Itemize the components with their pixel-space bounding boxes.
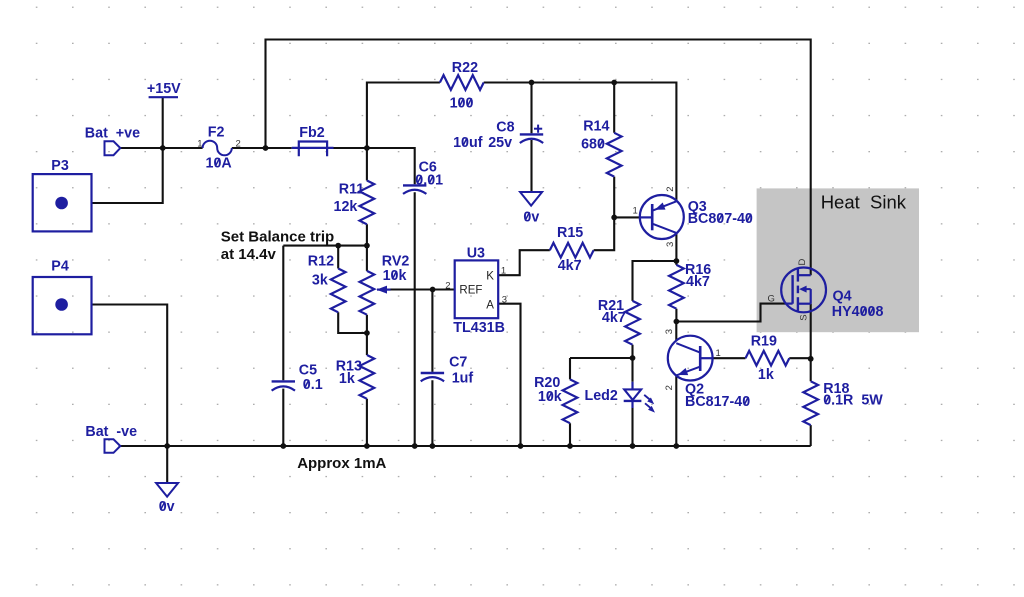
svg-text:Heat Sink: Heat Sink: [821, 191, 907, 212]
wire main divider column: [366, 148, 368, 446]
svg-text:3: 3: [665, 242, 676, 247]
wire R16 bottom lead: [675, 309, 677, 322]
resistor R20: [563, 379, 578, 423]
svg-text:Led2: Led2: [585, 388, 618, 404]
connector P4: [33, 277, 92, 334]
svg-text:0v: 0v: [523, 209, 539, 225]
svg-text:U3: U3: [467, 245, 485, 261]
resistor R11: [360, 181, 375, 225]
svg-text:REF: REF: [459, 285, 482, 297]
svg-text:R12: R12: [308, 253, 334, 269]
wire RV2 wiper to U3 pin2: [389, 288, 455, 290]
junction bottom rail at ground: [164, 443, 170, 449]
svg-text:3k: 3k: [312, 273, 328, 289]
wire gate path to Q4: [676, 304, 786, 322]
junction R20 bottom: [567, 443, 573, 449]
connector P3: [33, 174, 92, 231]
wire R21 top row: [633, 261, 677, 301]
svg-text:3: 3: [664, 329, 675, 334]
wire R22 row right to Q3 emitter: [484, 83, 677, 201]
wire U3 pin3 down: [498, 304, 520, 446]
potentiometer RV2: [360, 271, 375, 315]
resistor R22: [440, 75, 484, 90]
resistor R13: [360, 355, 375, 399]
svg-text:2: 2: [665, 187, 676, 192]
svg-text:TL431B: TL431B: [453, 320, 505, 336]
fuse F2: [203, 141, 232, 156]
connector Bat +ve: [105, 141, 121, 155]
capacitor C7: [421, 372, 444, 374]
svg-text:4k7: 4k7: [558, 258, 582, 274]
junction R13 bottom: [364, 443, 370, 449]
resistor R12: [331, 269, 346, 313]
junction Q3 base node: [611, 215, 617, 221]
wire C8 to ground: [530, 140, 532, 192]
svg-text:10uf: 10uf: [453, 135, 483, 151]
svg-text:+15V: +15V: [147, 81, 181, 97]
junction R16 top: [674, 258, 680, 264]
wire fuse to Fb2: [232, 147, 292, 149]
resistor R16: [669, 265, 684, 309]
svg-text:R15: R15: [557, 225, 583, 241]
junction RV2 bottom: [364, 330, 370, 336]
svg-text:2: 2: [236, 138, 241, 149]
junction +15V / Bat +ve: [160, 145, 166, 151]
wire Q3 base: [614, 216, 640, 218]
ground 0v under Bat -ve: [156, 483, 178, 497]
ferrite bead Fb2: [299, 142, 327, 157]
junction top rail tap: [263, 145, 269, 151]
wire R19 to source node: [789, 357, 810, 359]
svg-text:3: 3: [502, 294, 507, 305]
svg-text:1: 1: [501, 266, 506, 277]
junction U3 pin3 bottom: [518, 443, 524, 449]
svg-text:1uf: 1uf: [452, 371, 474, 387]
svg-text:R14: R14: [583, 119, 609, 135]
junction R14 top: [611, 80, 617, 86]
svg-text:K: K: [486, 270, 494, 282]
svg-text:1: 1: [197, 138, 202, 149]
junction R11 top: [364, 145, 370, 151]
svg-text:1: 1: [633, 206, 638, 217]
wire U3 pin1 to R15: [498, 250, 550, 275]
connector Bat -ve: [105, 439, 121, 453]
wire main row Bat+ve to fuse: [120, 147, 203, 149]
svg-text:C8: C8: [496, 119, 514, 135]
junction C8 top: [529, 80, 535, 86]
wire R20 top row: [570, 357, 633, 359]
resistor R19: [746, 351, 790, 366]
wire P4 to ground: [92, 305, 168, 484]
wire R18 bottom lead: [810, 425, 812, 446]
svg-text:S: S: [799, 314, 810, 320]
wire R15 to Q3 base node: [594, 217, 615, 250]
svg-text:1k: 1k: [758, 367, 774, 383]
wire C5 lower lead: [282, 389, 284, 446]
wire C5 upper lead: [282, 246, 284, 381]
wire C6 lower lead: [414, 192, 416, 446]
capacitor C6: [403, 184, 426, 186]
junction REF node: [430, 287, 436, 293]
svg-text:2: 2: [664, 385, 675, 390]
svg-text:RV2: RV2: [382, 253, 410, 269]
mosfet Q4 HY4008: [781, 268, 826, 313]
junction gate node: [674, 319, 680, 325]
wire C7 upper lead: [431, 290, 433, 372]
svg-text:10A: 10A: [206, 155, 232, 171]
resistor R14: [607, 133, 622, 177]
wire C7 lower lead: [431, 380, 433, 446]
wire Led2 to bottom rail: [631, 408, 633, 446]
svg-text:4k7: 4k7: [686, 274, 710, 290]
wire +15V / P3 vertical: [92, 98, 163, 203]
svg-text:P3: P3: [51, 158, 69, 174]
resistor R18: [803, 381, 818, 425]
wire R22 row left leg: [367, 83, 440, 149]
wire C8 upper lead: [530, 83, 532, 134]
ground 0v under C8: [520, 192, 542, 206]
svg-text:Bat +ve: Bat +ve: [85, 126, 140, 142]
svg-text:C7: C7: [449, 355, 467, 371]
svg-text:R19: R19: [751, 334, 777, 350]
junction C5 bottom: [280, 443, 286, 449]
svg-text:A: A: [486, 300, 494, 312]
svg-text:BC817-40: BC817-40: [685, 394, 750, 410]
svg-text:R22: R22: [452, 60, 478, 76]
wire Q2 base to R19: [713, 357, 746, 359]
svg-text:12k: 12k: [334, 199, 358, 215]
svg-text:1: 1: [716, 348, 721, 359]
svg-text:4k7: 4k7: [602, 310, 626, 326]
resistor R21: [625, 301, 640, 345]
svg-text:Q4: Q4: [833, 288, 852, 304]
resistor R15: [550, 243, 594, 258]
svg-text:0.1R 5W: 0.1R 5W: [823, 393, 883, 409]
svg-text:Approx 1mA: Approx 1mA: [297, 455, 386, 472]
LED Led2: [631, 382, 633, 390]
capacitor C5: [272, 380, 295, 382]
junction RV2 top: [364, 243, 370, 249]
svg-text:HY4008: HY4008: [832, 304, 884, 320]
wire Q3 collector down: [675, 234, 677, 265]
junction C6 bottom: [412, 443, 418, 449]
junction Led2 bottom: [630, 443, 636, 449]
svg-text:at 14.4v: at 14.4v: [221, 246, 277, 263]
wire +15V top rail: [266, 40, 811, 276]
op-amp U3 TL431B: [455, 260, 499, 318]
heat sink area: [757, 188, 919, 332]
wire R21 bottom to Led2: [631, 345, 633, 382]
capacitor C8: [520, 133, 543, 135]
wire R14 leads: [613, 83, 615, 218]
svg-text:0v: 0v: [159, 499, 175, 515]
wire Q2 emitter down: [675, 376, 677, 446]
svg-text:Set Balance trip: Set Balance trip: [221, 228, 334, 245]
slashed zeros: [161, 98, 874, 510]
svg-text:F2: F2: [208, 125, 225, 141]
junction Q2 emitter bottom: [673, 443, 679, 449]
svg-text:25v: 25v: [488, 135, 512, 151]
wire R12 leads: [338, 246, 367, 333]
wire Q4 source to R18: [810, 304, 812, 382]
wire set-balance row: [283, 245, 367, 247]
svg-text:Bat -ve: Bat -ve: [85, 424, 137, 440]
svg-text:D: D: [797, 259, 808, 266]
junction Q4 source node: [808, 356, 814, 362]
transistor Q2 BC817-40 NPN: [668, 336, 713, 381]
junction R21 bottom: [630, 355, 636, 361]
svg-text:P4: P4: [51, 259, 69, 275]
wire Fb2 to C6 corner: [334, 148, 415, 184]
transistor Q3 BC807-40 PNP: [640, 195, 684, 239]
svg-text:G: G: [768, 293, 775, 304]
svg-text:2: 2: [445, 281, 450, 292]
wire bottom rail: [119, 445, 811, 447]
svg-text:Fb2: Fb2: [299, 125, 324, 141]
svg-text:680: 680: [581, 137, 605, 153]
svg-text:R11: R11: [339, 181, 364, 197]
power symbol +15V: [149, 96, 178, 98]
junction C7 bottom: [430, 443, 436, 449]
wire Q2 collector: [675, 322, 677, 341]
junction R12 top: [335, 243, 341, 249]
wire R20 leads: [569, 358, 571, 446]
svg-text:1k: 1k: [339, 371, 355, 387]
